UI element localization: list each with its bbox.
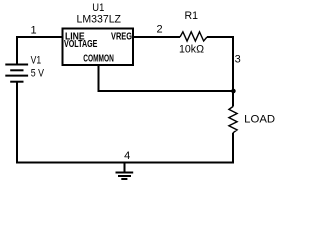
svg-text:VREG: VREG [111,31,132,42]
svg-text:5 V: 5 V [31,67,45,79]
svg-text:R1: R1 [185,10,199,22]
svg-text:LOAD: LOAD [244,114,275,126]
svg-text:2: 2 [156,24,162,36]
svg-text:U1: U1 [92,2,104,14]
svg-text:V1: V1 [31,55,41,67]
svg-text:LM337LZ: LM337LZ [77,14,122,26]
svg-text:10kΩ: 10kΩ [179,44,204,56]
svg-text:COMMON: COMMON [83,53,114,64]
svg-text:4: 4 [124,150,130,162]
svg-text:1: 1 [30,25,36,37]
svg-text:VOLTAGE: VOLTAGE [64,39,98,50]
svg-text:3: 3 [235,54,241,66]
